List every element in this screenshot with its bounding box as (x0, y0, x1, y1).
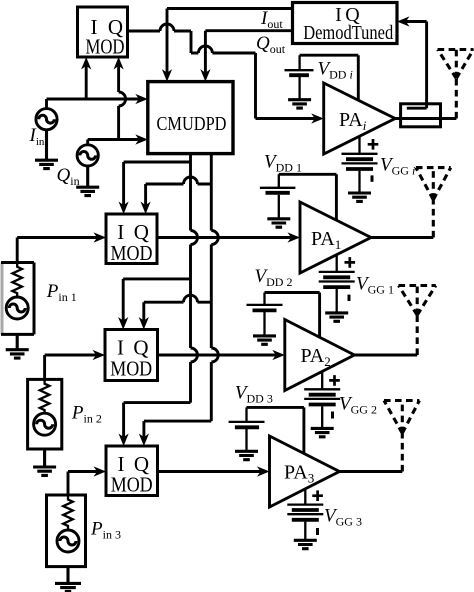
svg-text:MOD: MOD (86, 35, 125, 59)
svg-text:VDD 2: VDD 2 (255, 266, 293, 289)
svg-text:VGG 3: VGG 3 (324, 506, 362, 529)
source Pin1 (box with resistor and generator) (1, 263, 4, 335)
minus tick (VGG3) (316, 528, 319, 535)
svg-text:Pin 1: Pin 1 (46, 281, 77, 304)
op-amp PA2 (power amplifier) (285, 320, 355, 391)
ground (VDD2) (253, 336, 276, 344)
antenna 3 (dashed) (384, 401, 419, 472)
ground (VGG3) (294, 540, 317, 548)
wire: bus I branch to MOD2 (123, 279, 190, 321)
op-amp PA1 (power amplifier) (300, 202, 371, 273)
svg-text:Pin 3: Pin 3 (90, 519, 121, 542)
wire: VDD2 to PA2 (265, 293, 320, 338)
wire: MOD2 output to PA2 (158, 354, 276, 357)
svg-text:Pin 2: Pin 2 (71, 403, 102, 426)
svg-text:VGG 1: VGG 1 (356, 274, 394, 297)
plus sign (VGG1) (345, 257, 356, 268)
ground (VGG2) (311, 428, 334, 436)
svg-text:VGG 2: VGG 2 (339, 394, 377, 417)
battery VDD_i (285, 55, 314, 98)
wire: MOD3 output to PA3 (158, 470, 261, 473)
svg-text:PA3: PA3 (284, 462, 314, 486)
svg-text:MOD: MOD (110, 356, 152, 380)
wire: coupler to demod input (406, 22, 427, 109)
battery VGG1 (319, 255, 355, 312)
resistor (Pin2) (40, 379, 50, 413)
coupler (401, 104, 441, 127)
svg-text:PAi: PAi (339, 109, 367, 133)
demodulator U5 I Q DemodTuned (293, 3, 398, 44)
svg-text:PA1: PA1 (311, 228, 341, 252)
wire: VDD1 to PA1 (279, 174, 337, 220)
ground (Pin2) (33, 449, 56, 475)
wire: Iout feedback from demod to CMUDPD (167, 9, 293, 73)
battery VDD3 (229, 407, 265, 450)
resistor (Pin1) (12, 263, 22, 298)
op-amp PA3 (power amplifier) (270, 436, 340, 507)
plus sign (VGG3) (312, 490, 323, 501)
svg-text:Qin: Qin (57, 165, 80, 188)
wire: PA1 output to antenna 1 (371, 236, 433, 239)
svg-text:VGG i: VGG i (380, 155, 415, 178)
wire: VDD3 to PA3 (247, 407, 304, 453)
battery VDD2 (247, 293, 283, 335)
generator (Pin3) (57, 530, 79, 552)
wire: bus I branch to MOD1 (124, 162, 191, 205)
ground (Pin1) (6, 334, 29, 358)
svg-text:VDD 1: VDD 1 (264, 152, 302, 175)
svg-text:DemodTuned: DemodTuned (303, 22, 393, 44)
ground (VGG1) (325, 313, 348, 321)
wire: MOD1 output to PA1 (157, 236, 291, 239)
ground (VDD3) (235, 451, 258, 459)
plus sign (VGG2) (329, 375, 340, 386)
wire: Iin to U1 and CMUDPD (47, 66, 139, 109)
ground (Pin3) (55, 567, 81, 592)
wire: VDD_i to PA_i (300, 55, 359, 100)
wire: Pin3 to MOD3 input (68, 472, 97, 496)
ground (Iin) (35, 130, 58, 169)
ground (VGG_i) (348, 193, 371, 201)
wire: U1 output to PA_i input (128, 31, 315, 119)
wire: PA_i output to antenna i (395, 117, 456, 120)
source Pin2 (box with resistor and generator) (28, 379, 62, 449)
ground (VDD_i) (288, 100, 311, 108)
minus tick (VGG_i) (371, 175, 374, 181)
I/Q modulator U3 (105, 330, 158, 381)
svg-text:Qout: Qout (256, 33, 286, 56)
svg-text:VDD 3: VDD 3 (235, 383, 273, 406)
wire: Pin2 to MOD2 input (45, 355, 97, 379)
ground (Qin) (76, 166, 99, 196)
I/Q modulator U1 (reference) (78, 7, 128, 57)
wire: Qout feedback from demod to CMUDPD (205, 31, 292, 73)
minus tick (VGG2) (331, 412, 334, 419)
source Pin3 (box with resistor and generator) (47, 495, 86, 567)
svg-text:CMUDPD: CMUDPD (157, 113, 227, 135)
svg-text:MOD: MOD (111, 473, 153, 497)
wire: PA3 output to antenna 3 (339, 470, 402, 473)
op-amp PA_i (power amplifier) (324, 83, 396, 154)
battery VDD1 (260, 174, 296, 217)
I/Q modulator U4 (106, 446, 158, 496)
battery VGG_i (342, 136, 378, 191)
source Qin (77, 145, 98, 166)
antenna 1 (dashed) (416, 168, 451, 238)
generator (Pin2) (34, 413, 56, 435)
antenna i (dashed) (438, 50, 474, 119)
antenna 2 (dashed) (399, 286, 436, 356)
wire: bus Q branch to MOD2 (hops bus I) (144, 302, 212, 320)
DPD block CMUDPD (148, 82, 233, 154)
plus sign (VGG_i) (368, 139, 379, 150)
wire: PA2 output to antenna 2 (354, 354, 417, 357)
wire: bus Q branch to MOD1 (hops bus I) (146, 184, 212, 205)
minus tick (VGG1) (348, 295, 351, 301)
svg-text:VDD i: VDD i (318, 59, 353, 82)
resistor (Pin3) (63, 495, 73, 530)
svg-text:MOD: MOD (111, 241, 153, 265)
battery VGG3 (287, 489, 323, 539)
svg-text:PA2: PA2 (301, 345, 331, 369)
wire: bus I from CMUDPD (hops MOD1/MOD2 outputs) to MOD3 (124, 154, 191, 438)
battery VGG2 (304, 371, 340, 427)
generator (Pin1) (6, 297, 28, 319)
wire: Qin to U1 and CMUDPD (hops Iin wire) (88, 66, 139, 145)
wire: Pin1 to MOD1 input (17, 238, 97, 263)
ground (VDD1) (267, 219, 290, 227)
svg-text:Iout: Iout (260, 8, 283, 31)
I/Q modulator U2 (106, 214, 157, 264)
wire: bus Q from CMUDPD (hops MOD1/MOD2 outputs) to MOD3 (144, 154, 211, 438)
source Iin (36, 109, 57, 130)
